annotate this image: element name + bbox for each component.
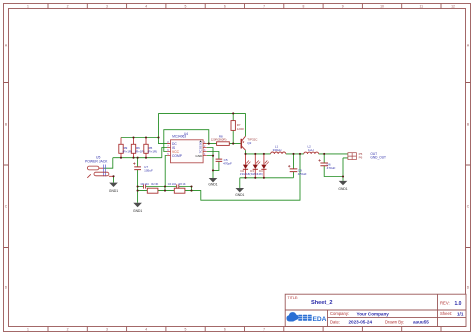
svg-text:4: 4 [145,328,147,332]
svg-text:2: 2 [67,328,69,332]
wire: C9 taps [293,154,295,178]
wire: switch node rail with L1 L2 to connector [246,150,344,154]
svg-text:1: 1 [27,5,29,9]
wire: power jack center pin riser [104,158,113,169]
wire: resistor top rail [121,137,159,139]
svg-text:R2 3K: R2 3K [151,183,158,186]
svg-text:120R(360R): 120R(360R) [211,137,227,141]
svg-text:5: 5 [185,5,187,9]
wire: U4 pin1 to R8 to Q2 base [207,143,241,145]
svg-text:GND: GND [195,154,203,158]
wire: C5 bottom to GND vertical [213,161,219,170]
svg-text:470uF: 470uF [327,166,336,170]
svg-text:P6: P6 [359,156,363,160]
wire: feedback run from switch rail to divider [192,154,301,200]
svg-text:C6 104: C6 104 [168,183,177,186]
svg-text:MC34063: MC34063 [172,135,186,139]
svg-text:470pF: 470pF [223,161,232,165]
capacitor C6 in divider pair 2 [168,183,179,189]
svg-text:105uF: 105uF [144,168,153,172]
capacitor U7 input electrolytic [133,162,153,172]
wire: U6 taps and GND link [324,154,343,177]
svg-text:4: 4 [145,5,147,9]
capacitor C9 output electrolytic [288,165,307,176]
svg-text:2: 2 [67,5,69,9]
wire: U4 pin3 to C5 [207,152,219,160]
junction dots [112,112,344,191]
svg-text:1.0: 1.0 [455,301,462,307]
diode D3 [253,154,260,178]
svg-text:GND1: GND1 [235,193,244,197]
svg-text:1/1: 1/1 [457,311,464,316]
resistor R5 [144,138,157,158]
svg-text:5: 5 [185,328,187,332]
wire: top net from node above U4 to Q2 emitter [159,112,246,114]
svg-text:(R+1R): (R+1R) [135,149,144,153]
capacitor U6 output electrolytic [318,159,335,170]
svg-text:GND_OUT: GND_OUT [370,156,386,160]
resistor R2 in divider pair 1 [147,183,158,193]
svg-text:C8 104: C8 104 [141,183,150,186]
wire: divider top branch [138,186,192,188]
ground GND1 below divider column [133,203,142,213]
resistor R3 in divider pair 2 [174,183,186,193]
title block [285,294,466,326]
svg-text:TITLE:: TITLE: [288,296,299,300]
svg-text:330uH: 330uH [273,148,282,152]
svg-text:7: 7 [263,328,265,332]
capacitor C5 timing [216,158,232,165]
svg-text:Drawn By:: Drawn By: [385,319,404,324]
svg-text:6: 6 [224,328,226,332]
svg-text:Your Company: Your Company [357,311,390,316]
wire: Q2 emitter vertical [245,113,247,136]
svg-text:120R: 120R [237,127,244,131]
resistor R6 [131,138,144,158]
diode labels D2 D3 D4 values [240,169,263,176]
svg-text:2023-05-24: 2023-05-24 [349,320,373,325]
wire: C7 column through divider to GND [137,158,139,203]
svg-text:1uH: 1uH [308,148,314,152]
diode D4 [261,154,269,178]
svg-text:aauu55: aauu55 [413,320,429,325]
wire: R7 top stub net [232,113,234,120]
wire: COMP pin drop to feedback divider [165,156,167,187]
svg-text:GND1: GND1 [109,189,118,193]
inductor L1 [271,145,286,154]
wire: left vertical from top net down to resistor top rail and pin DRC [159,113,168,143]
svg-text:(R+1R): (R+1R) [148,149,157,153]
svg-text:R3 1K: R3 1K [179,183,186,186]
inductor L2 [304,145,319,154]
svg-text:9: 9 [342,5,344,9]
svg-text:(R+1R): (R+1R) [123,149,132,153]
svg-text:TC: TC [199,149,203,153]
ground GND1 at output [338,177,347,192]
connector U5 power jack [85,156,114,178]
svg-text:8: 8 [302,5,304,9]
svg-text:Q2: Q2 [247,141,251,145]
svg-text:Date:: Date: [330,319,340,324]
svg-text:Sheet:: Sheet: [440,311,452,316]
svg-text:12: 12 [451,5,455,9]
svg-text:11: 11 [420,5,424,9]
svg-text:Sheet_2: Sheet_2 [311,300,332,306]
diode D2 [243,154,251,178]
svg-text:GND1: GND1 [133,209,142,213]
wire: connector pin2 drop [343,154,348,177]
svg-text:1: 1 [27,328,29,332]
svg-text:470uF: 470uF [298,172,307,176]
EDA logo [286,312,326,323]
ground GND1 at diode rail [235,188,244,197]
resistor R9 [119,138,132,158]
wire: U4 pin2 to GND vertical [207,148,213,156]
svg-text:10: 10 [380,5,384,9]
svg-text:6: 6 [224,5,226,9]
wire: VCC loop around U4 [164,130,209,152]
ground GND1 at U4 [208,178,217,186]
wire: divider mid and right column verticals [165,187,192,191]
svg-text:SC: SC [199,141,203,145]
svg-text:1SMA8(SM4648): 1SMA8(SM4648) [240,172,263,176]
resistor R8 base drive [211,134,230,145]
svg-text:3: 3 [106,5,108,9]
wire: diode cathode rail and its GND drop [240,178,294,188]
connector P5 output header [348,152,363,159]
wire: divider bottom branch [138,190,192,192]
wire: R7 bottom to base net [232,130,234,143]
wire: input bottom rail from power jack to IPK riser [113,148,167,158]
wire: U4 pin4 GND drop [207,156,213,179]
svg-text:3: 3 [106,328,108,332]
svg-text:POWER JACK: POWER JACK [85,160,108,164]
transistor Q2 TIP32C [241,136,258,150]
svg-text:COMP: COMP [172,154,183,158]
svg-text:GND1: GND1 [338,187,347,191]
capacitor C8 in divider pair 1 [141,183,150,189]
svg-text:REV:: REV: [440,301,450,306]
svg-text:GND1: GND1 [208,182,217,186]
svg-text:7: 7 [263,5,265,9]
svg-text:Company:: Company: [330,311,349,316]
svg-text:EDA: EDA [313,316,327,323]
op-amp U4 MC34063 converter IC [167,132,207,163]
resistor R7 [231,121,244,131]
svg-text:SE: SE [199,145,203,149]
ground GND1 at power jack [109,176,118,193]
